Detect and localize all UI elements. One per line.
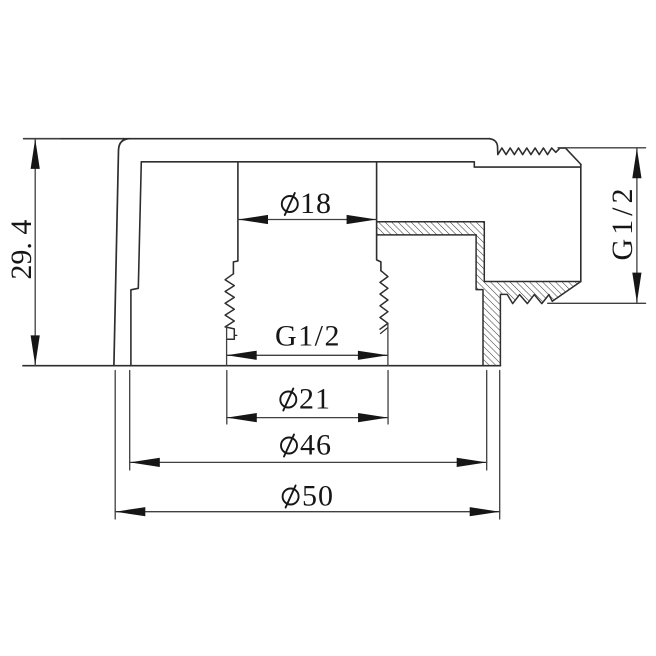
dimension phi46 symbol [281, 438, 297, 454]
dimension phi18 arrow left [238, 215, 268, 224]
dimension 29.4 arrow up [31, 139, 40, 169]
dimension phi21 arrow right [358, 413, 388, 422]
dimension phi21 extension right [387, 371, 389, 425]
dimension G1/2 socket line [227, 354, 388, 356]
dimension G1/2 male arrow up [632, 148, 641, 178]
dimension phi50 extension right [499, 371, 501, 520]
male pipe end face [580, 165, 582, 282]
dimension phi50 arrow right [470, 507, 500, 516]
body top edge with left extension [24, 138, 490, 140]
dimension phi21 symbol [280, 392, 296, 408]
dimension phi46 extension right [486, 371, 488, 471]
dimension phi46 line [130, 461, 487, 463]
dimension phi21 arrow left [227, 413, 257, 422]
svg-text:G1/2: G1/2 [606, 185, 639, 261]
male pipe shoulder and top external thread [489, 139, 581, 165]
hatched web, right wall and male pipe bottom wall (section) [476, 235, 581, 366]
socket right thread runout [381, 328, 388, 334]
svg-text:50: 50 [302, 480, 334, 513]
svg-text:21: 21 [299, 383, 331, 416]
dimension 29.4 extension top [24, 138, 60, 140]
dimension G1/2 socket arrow left [227, 351, 257, 360]
dimension 29.4 arrow down [31, 335, 40, 365]
dimension G1/2 male line [636, 148, 638, 302]
dimension G1/2 socket arrow right [358, 351, 388, 360]
body inner left wall with step [131, 162, 141, 366]
dimension G1/2 male extension bottom [548, 302, 646, 304]
svg-text:G1/2: G1/2 [275, 320, 341, 353]
socket right crest line down to bottom [387, 323, 389, 365]
dimension phi21 line [227, 417, 388, 419]
dimension G1/2 male extension top [558, 147, 646, 149]
socket right bore wall [377, 162, 381, 271]
dimension phi50 extension left [114, 371, 116, 520]
dimension phi50 line [115, 511, 499, 513]
body outer left wall with rounded corner [114, 139, 130, 366]
dimension phi46 extension left [129, 371, 131, 471]
dimension phi18 arrow right [347, 215, 377, 224]
dimension 29.4 line [34, 139, 36, 366]
svg-text:18: 18 [300, 187, 332, 220]
dimension phi50 symbol [283, 489, 299, 505]
top hatched band (bore upper wall in section) [377, 222, 485, 235]
svg-text:46: 46 [300, 429, 332, 462]
body bottom edge with left extension [23, 365, 500, 367]
dimension phi18 symbol [282, 196, 298, 212]
dimension phi50 arrow left [115, 507, 145, 516]
dimension G1/2 male arrow down [632, 273, 641, 303]
socket left internal thread [225, 274, 234, 340]
socket left thread runout tick [234, 334, 237, 336]
socket left bore wall [233, 162, 238, 274]
dimension phi21 extension left [226, 371, 228, 425]
socket left crest line down to bottom [226, 327, 228, 366]
svg-text:29. 4: 29. 4 [5, 220, 38, 280]
dimension phi46 arrow right [457, 458, 487, 467]
dimension phi18 line [238, 219, 377, 221]
socket right internal thread [380, 271, 388, 330]
body inner top line with step down [141, 162, 581, 167]
dimension phi46 arrow left [130, 458, 160, 467]
